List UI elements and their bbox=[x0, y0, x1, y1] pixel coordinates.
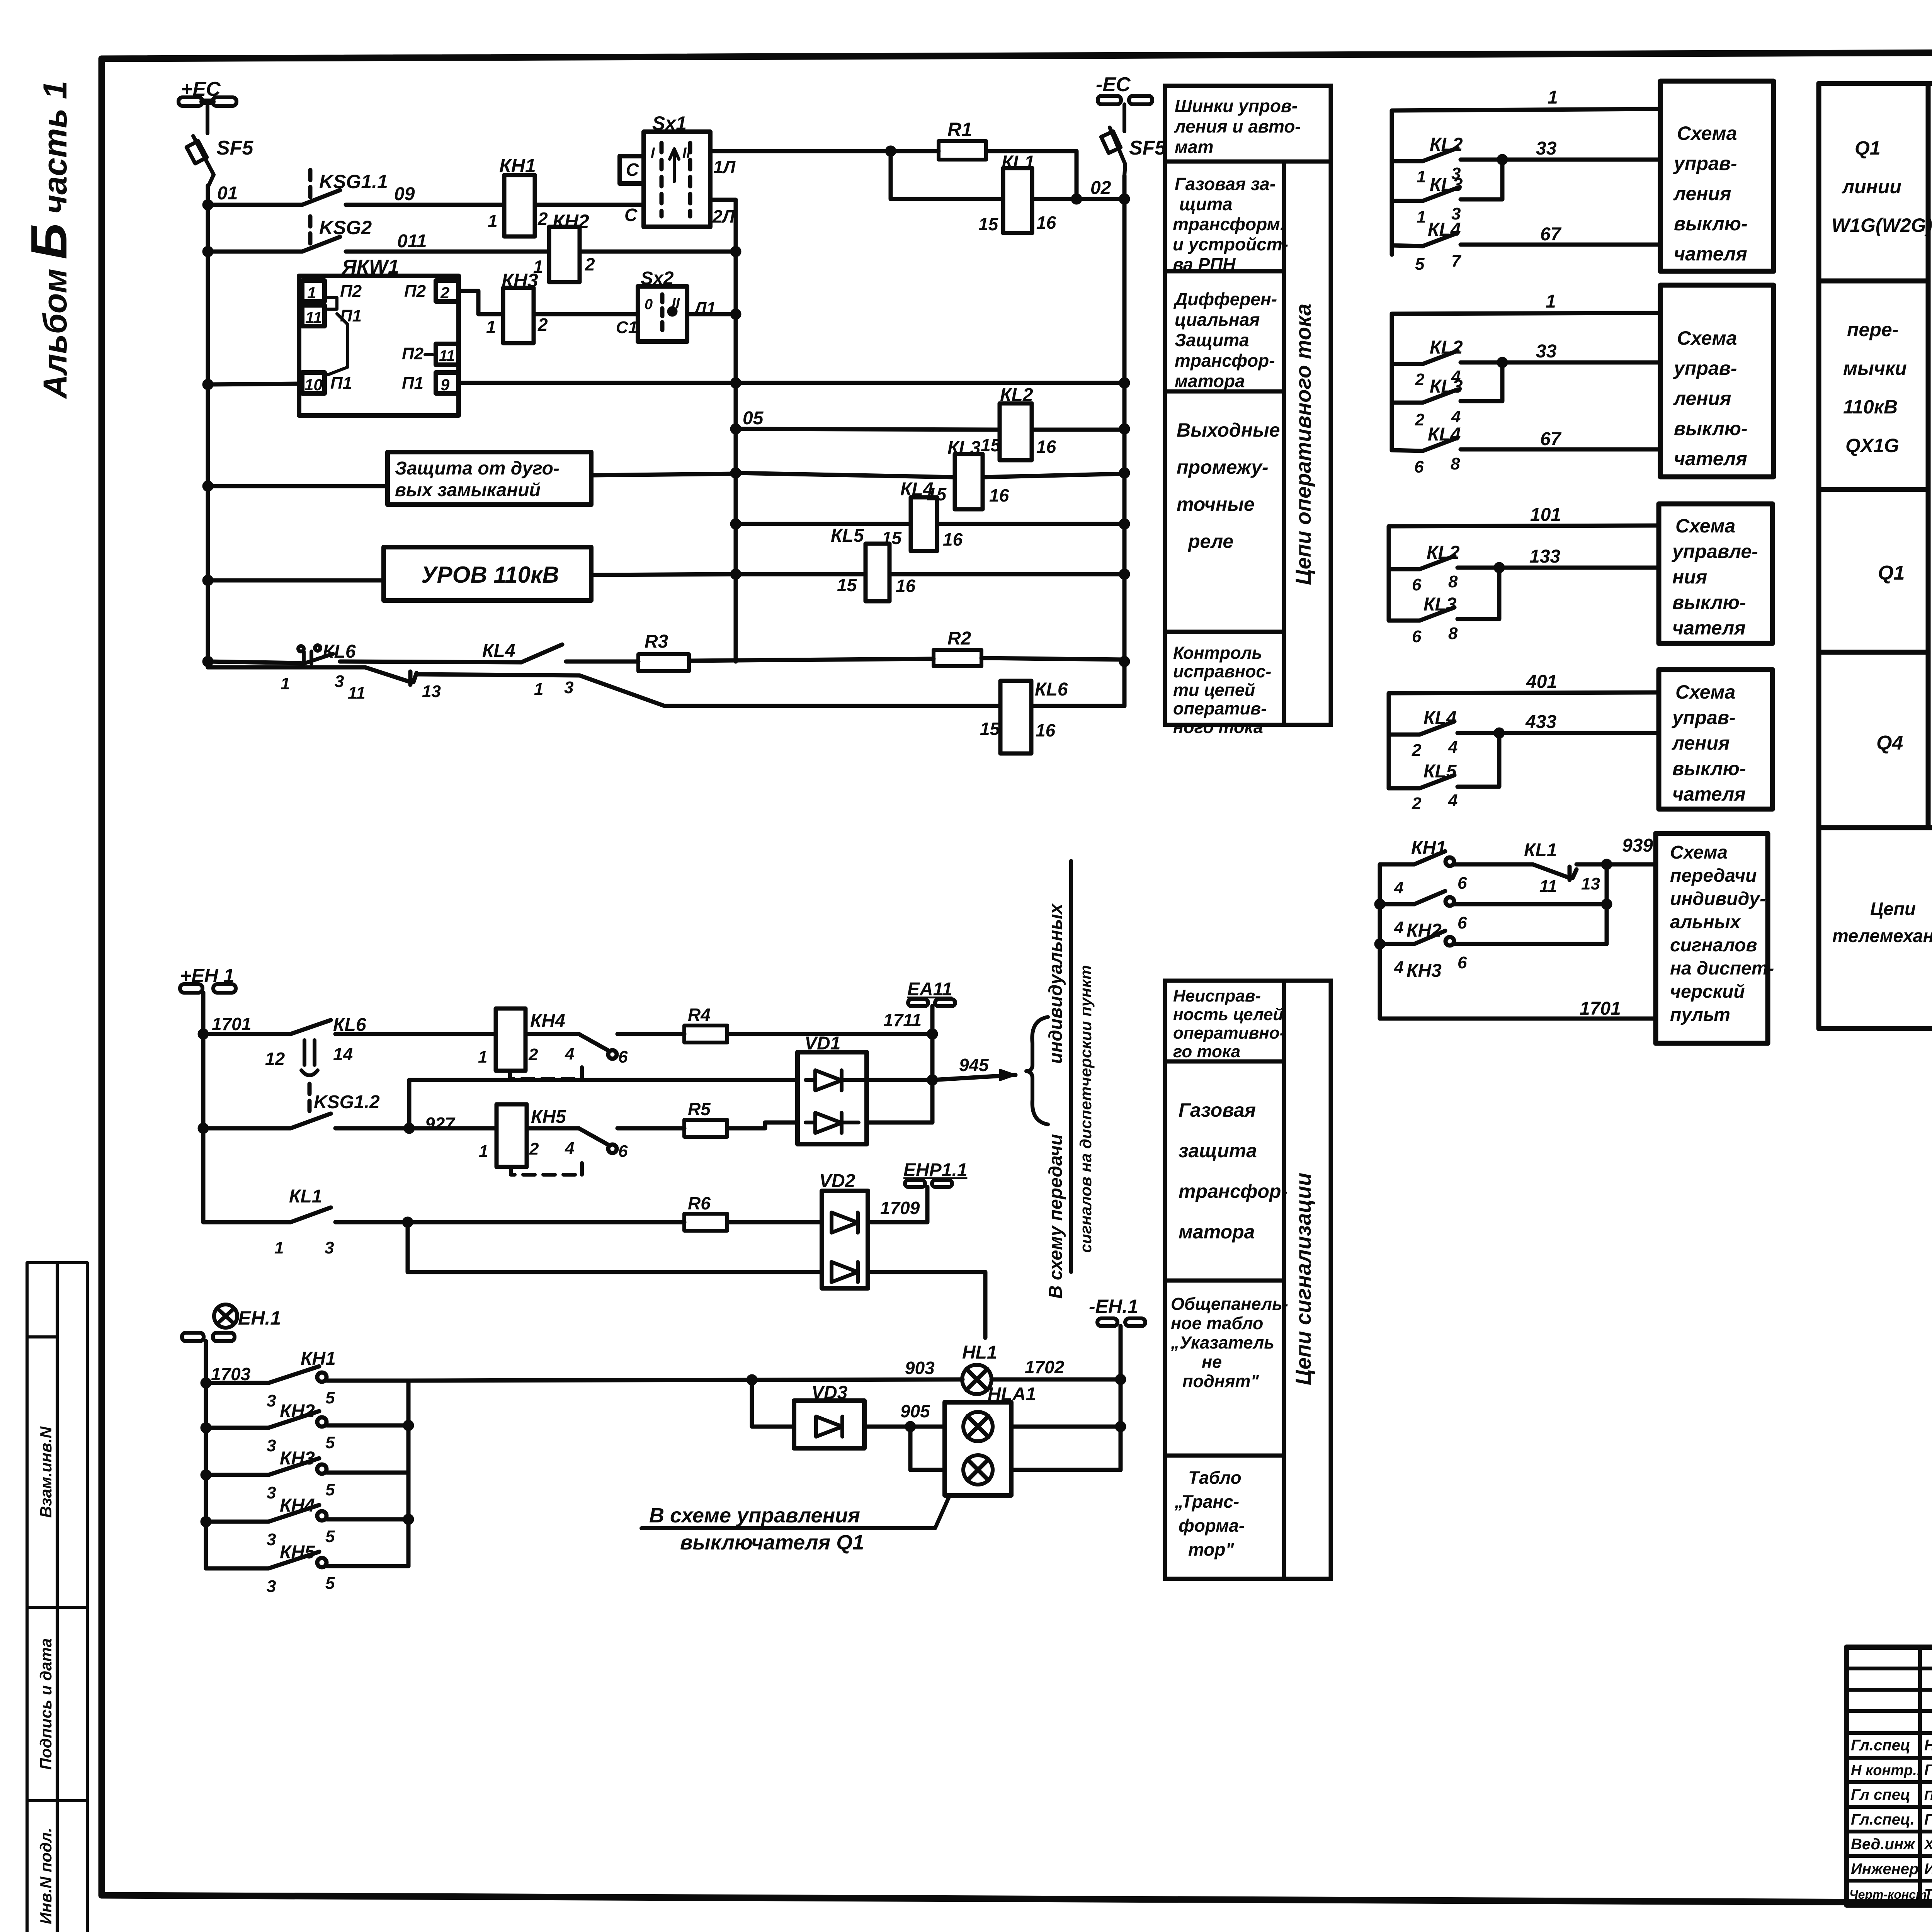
svg-text:6: 6 bbox=[618, 1142, 628, 1161]
relay KH5 bbox=[497, 1104, 527, 1167]
svg-text:КН4: КН4 bbox=[530, 1011, 565, 1031]
svg-text:КН3: КН3 bbox=[1406, 961, 1442, 981]
svg-text:Вед.инж: Вед.инж bbox=[1851, 1836, 1916, 1853]
svg-text:сигналов на диспетчерскии пунк: сигналов на диспетчерскии пункт bbox=[1077, 965, 1095, 1253]
wire 945 with arrow bbox=[932, 1075, 1015, 1080]
svg-text:KSG2: KSG2 bbox=[319, 217, 372, 238]
resistor R3 bbox=[638, 654, 689, 671]
svg-text:II: II bbox=[672, 296, 680, 312]
breaker SF5 bbox=[187, 136, 214, 185]
svg-text:5: 5 bbox=[325, 1480, 335, 1499]
svg-text:1701: 1701 bbox=[1580, 998, 1621, 1019]
svg-text:КН4: КН4 bbox=[280, 1495, 315, 1516]
lamp HL1 bbox=[962, 1365, 992, 1394]
title block frame bbox=[1847, 1647, 1932, 1905]
svg-text:Q4: Q4 bbox=[1876, 732, 1903, 754]
svg-text:R1: R1 bbox=[947, 119, 972, 140]
svg-text:Гл.спец: Гл.спец bbox=[1851, 1737, 1910, 1754]
svg-text:Никитин: Никитин bbox=[1924, 1737, 1932, 1754]
svg-text:33: 33 bbox=[1536, 138, 1557, 159]
svg-text:Sx1: Sx1 bbox=[652, 112, 687, 134]
lamp panel HLA1 bbox=[945, 1402, 1011, 1495]
contact KL4 (5-7) bbox=[1392, 245, 1423, 246]
svg-text:16: 16 bbox=[989, 485, 1009, 505]
contact KH5 (3-5) bbox=[206, 1566, 269, 1571]
svg-text:Инженер: Инженер bbox=[1851, 1861, 1918, 1878]
rail A vertical bbox=[734, 200, 738, 662]
svg-text:2: 2 bbox=[528, 1045, 538, 1064]
svg-text:13: 13 bbox=[1581, 874, 1600, 893]
svg-text:Черт-конст: Черт-конст bbox=[1849, 1888, 1927, 1901]
svg-text:Иванова: Иванова bbox=[1924, 1861, 1932, 1878]
right collector rail bbox=[406, 1381, 411, 1566]
svg-text:Взам.инв.N: Взам.инв.N bbox=[37, 1426, 55, 1518]
breaker SF5 (negative bus) bbox=[1101, 128, 1125, 176]
svg-text:3: 3 bbox=[325, 1238, 334, 1257]
svg-text:выключателя Q1: выключателя Q1 bbox=[680, 1531, 864, 1554]
svg-text:67: 67 bbox=[1540, 429, 1562, 449]
svg-text:16: 16 bbox=[1036, 720, 1056, 740]
svg-text:Sх2: Sх2 bbox=[641, 268, 674, 289]
contact KL2 (2-4) bbox=[1392, 362, 1423, 366]
wire bottom return row with contact KL4 11-13 bbox=[208, 665, 365, 670]
wire row 011 bbox=[208, 250, 302, 254]
svg-text:15: 15 bbox=[981, 435, 1001, 455]
contact KH2 (3-5) bbox=[206, 1426, 269, 1430]
svg-text:4: 4 bbox=[1448, 791, 1458, 810]
svg-text:15: 15 bbox=[837, 575, 857, 595]
svg-text:КL5: КL5 bbox=[831, 526, 864, 546]
svg-text:905: 905 bbox=[900, 1401, 930, 1421]
contact KL3 (6-8) bbox=[1389, 619, 1420, 623]
wire row 01-09 bbox=[208, 203, 302, 207]
resistor R1 bbox=[939, 141, 986, 160]
contact KH5 (4-6) bbox=[579, 1128, 608, 1145]
svg-text:16: 16 bbox=[1036, 213, 1056, 233]
brace for dispatcher signals bbox=[1026, 1017, 1048, 1124]
contact KH1 (4-6) bbox=[1380, 862, 1414, 867]
branch to VD3 bbox=[752, 1380, 794, 1427]
svg-text:133: 133 bbox=[1529, 546, 1560, 567]
contact KL4 (6-8) bbox=[1392, 450, 1423, 451]
left rail from +EH1 bbox=[201, 993, 206, 1222]
wire row 05 bbox=[736, 429, 1000, 430]
contact KSG1.1 bbox=[308, 170, 313, 198]
svg-text:КL6: КL6 bbox=[1035, 679, 1068, 700]
svg-text:939: 939 bbox=[1622, 835, 1653, 856]
svg-text:КН3: КН3 bbox=[502, 270, 538, 291]
group 5 rail bbox=[1378, 864, 1382, 1019]
branch to VD2 lower input bbox=[408, 1222, 822, 1272]
svg-text:2: 2 bbox=[440, 284, 449, 302]
diode block VD1 bbox=[798, 1052, 867, 1144]
svg-text:КН3: КН3 bbox=[280, 1448, 315, 1469]
svg-text:КL2: КL2 bbox=[1430, 134, 1463, 155]
svg-text:1709: 1709 bbox=[880, 1198, 920, 1218]
relay KH1 bbox=[504, 175, 535, 236]
svg-text:С1: С1 bbox=[616, 318, 638, 337]
svg-text:1711: 1711 bbox=[883, 1010, 922, 1030]
svg-text:1701: 1701 bbox=[212, 1014, 251, 1034]
svg-text:КL6: КL6 bbox=[323, 641, 356, 662]
svg-text:КL1: КL1 bbox=[289, 1186, 322, 1207]
riser to VD1 upper input bbox=[409, 1080, 798, 1128]
svg-text:УРОВ 110кВ: УРОВ 110кВ bbox=[421, 562, 559, 588]
svg-text:1: 1 bbox=[281, 674, 290, 693]
box Схема управления выключателя (2) bbox=[1660, 285, 1774, 477]
svg-text:6: 6 bbox=[1412, 575, 1422, 594]
wire row KSG1.2 bbox=[203, 1126, 291, 1131]
resistor R2 bbox=[934, 650, 981, 666]
bus EHP1.1 bbox=[905, 1180, 952, 1187]
svg-text:КН1: КН1 bbox=[499, 155, 536, 177]
svg-text:945: 945 bbox=[959, 1055, 989, 1075]
svg-text:14: 14 bbox=[333, 1044, 353, 1064]
svg-text:1703: 1703 bbox=[211, 1364, 251, 1384]
svg-text:П1: П1 bbox=[402, 374, 423, 393]
left margin stamp boxes bbox=[27, 1263, 87, 1932]
svg-text:5: 5 bbox=[325, 1433, 335, 1452]
relay KH3 bbox=[503, 288, 534, 343]
svg-text:4: 4 bbox=[1394, 878, 1403, 897]
column Q1/Q4 outer box bbox=[1819, 83, 1932, 1029]
svg-text:КН1: КН1 bbox=[301, 1349, 336, 1369]
svg-text:КL5: КL5 bbox=[1423, 761, 1457, 782]
svg-text:индивидуальных: индивидуальных bbox=[1046, 903, 1066, 1064]
svg-text:В схеме управления: В схеме управления bbox=[649, 1504, 860, 1527]
svg-text:16: 16 bbox=[943, 529, 963, 549]
box Защита от дуговых замыканий bbox=[388, 452, 591, 505]
svg-text:Тимофеева: Тимофеева bbox=[1924, 1886, 1932, 1902]
svg-text:-ЕС: -ЕС bbox=[1096, 73, 1131, 96]
svg-text:1: 1 bbox=[274, 1238, 284, 1257]
contact KL1 (11-13) bbox=[1533, 864, 1577, 880]
svg-text:Подпись и дата: Подпись и дата bbox=[37, 1638, 55, 1770]
svg-text:Цепи оперативного тока: Цепи оперативного тока bbox=[1291, 304, 1315, 585]
wire Sx1 2L to rail A bbox=[710, 198, 736, 202]
wire 1709 to EHP1.1 bbox=[868, 1187, 927, 1222]
wire to arc protection box bbox=[208, 484, 388, 488]
bus EA11 bbox=[908, 999, 955, 1006]
svg-text:КН5: КН5 bbox=[531, 1107, 566, 1127]
wire 903 row bbox=[408, 1379, 963, 1381]
resistor R5 bbox=[684, 1120, 727, 1137]
svg-text:ЕН.1: ЕН.1 bbox=[238, 1307, 281, 1329]
svg-text:1: 1 bbox=[307, 284, 316, 302]
branch to lower lamp bbox=[910, 1427, 945, 1470]
svg-text:5: 5 bbox=[325, 1574, 335, 1593]
callout rule (vertical) bbox=[1069, 861, 1073, 1272]
svg-text:05: 05 bbox=[743, 408, 764, 429]
contact KSG1.2 bbox=[308, 1084, 312, 1112]
svg-text:R4: R4 bbox=[688, 1005, 711, 1025]
svg-text:+ЕС: +ЕС bbox=[181, 78, 221, 100]
svg-text:КL4: КL4 bbox=[482, 641, 515, 661]
relay KL6 coil bbox=[1000, 681, 1031, 753]
wire from VD2 lower diode bbox=[868, 1272, 985, 1338]
svg-text:01: 01 bbox=[217, 183, 238, 204]
svg-text:КL6: КL6 bbox=[333, 1015, 366, 1035]
svg-text:5: 5 bbox=[1415, 255, 1425, 274]
svg-text:3: 3 bbox=[267, 1577, 276, 1596]
svg-text:В схему передачи: В схему передачи bbox=[1046, 1134, 1066, 1299]
svg-text:П2: П2 bbox=[340, 282, 362, 301]
svg-text:1: 1 bbox=[486, 317, 496, 337]
contact KSG2 bbox=[308, 216, 313, 243]
svg-text:927: 927 bbox=[425, 1114, 456, 1134]
svg-text:0: 0 bbox=[645, 296, 653, 313]
svg-text:SF5: SF5 bbox=[1129, 137, 1166, 159]
group 2: wire node 1 bbox=[1392, 313, 1660, 450]
svg-text:ЕНР1.1: ЕНР1.1 bbox=[903, 1160, 967, 1180]
svg-text:1: 1 bbox=[1417, 167, 1426, 186]
wire row 1701 bbox=[203, 1032, 291, 1036]
svg-text:2: 2 bbox=[537, 315, 548, 335]
switch Sx1 bbox=[620, 132, 710, 227]
svg-text:3: 3 bbox=[267, 1436, 276, 1455]
svg-text:4: 4 bbox=[565, 1044, 574, 1063]
svg-text:8: 8 bbox=[1448, 572, 1458, 591]
wire Sx1 1L row to R1 bbox=[710, 149, 939, 153]
svg-text:Цепи сигнализации: Цепи сигнализации bbox=[1291, 1173, 1315, 1385]
svg-text:КL2: КL2 bbox=[1427, 543, 1460, 563]
svg-text:6: 6 bbox=[1414, 457, 1424, 476]
svg-text:Горелик: Горелик bbox=[1924, 1811, 1932, 1828]
contact KH1 (3-5) bbox=[206, 1381, 269, 1385]
svg-text:2: 2 bbox=[529, 1139, 539, 1158]
svg-text:R3: R3 bbox=[645, 631, 668, 652]
contact KH4 (4-6) bbox=[579, 1034, 608, 1050]
svg-text:П1: П1 bbox=[330, 374, 352, 393]
svg-text:7: 7 bbox=[1451, 252, 1462, 270]
svg-text:R5: R5 bbox=[688, 1099, 711, 1119]
svg-text:КL2: КL2 bbox=[1430, 337, 1463, 358]
svg-text:11: 11 bbox=[1539, 877, 1557, 896]
group 4: wire node 401 bbox=[1389, 692, 1659, 788]
svg-text:2: 2 bbox=[1415, 370, 1425, 389]
svg-text:SF5: SF5 bbox=[216, 137, 253, 159]
svg-text:5: 5 bbox=[325, 1527, 335, 1546]
svg-text:903: 903 bbox=[905, 1358, 935, 1378]
svg-text:11: 11 bbox=[439, 347, 455, 364]
svg-text:10: 10 bbox=[304, 376, 323, 394]
svg-text:+ЕН 1: +ЕН 1 bbox=[180, 965, 234, 986]
group 1: wire node 1 bbox=[1392, 109, 1660, 255]
svg-text:13: 13 bbox=[422, 682, 441, 701]
svg-text:15: 15 bbox=[882, 528, 902, 548]
bus -EH.1 bbox=[1097, 1318, 1145, 1326]
contact KL3 (2-4) bbox=[1392, 401, 1423, 405]
svg-text:11: 11 bbox=[305, 308, 322, 327]
svg-text:КL4: КL4 bbox=[1428, 219, 1461, 240]
wire 1701 to box bbox=[1380, 1017, 1656, 1021]
resistor R4 bbox=[684, 1026, 727, 1043]
svg-text:1: 1 bbox=[1417, 207, 1426, 226]
svg-text:401: 401 bbox=[1526, 672, 1557, 692]
box УРОВ 110кВ bbox=[384, 547, 591, 600]
svg-text:VD1: VD1 bbox=[804, 1033, 840, 1054]
contact KL5 (2-4) bbox=[1389, 786, 1420, 791]
svg-text:П2: П2 bbox=[404, 282, 426, 301]
bus -EC bbox=[1098, 96, 1152, 131]
svg-text:КН1: КН1 bbox=[1411, 838, 1446, 858]
lower annotation column (signal circuits) bbox=[1165, 981, 1331, 1579]
svg-text:1: 1 bbox=[1546, 291, 1556, 312]
box Схема управления выключателя (3) bbox=[1659, 504, 1772, 643]
svg-text:R2: R2 bbox=[947, 628, 971, 649]
svg-text:VD2: VD2 bbox=[819, 1171, 855, 1191]
wire to УРОВ box bbox=[208, 578, 384, 583]
contact KL2 (1-3) bbox=[1392, 159, 1423, 163]
svg-text:R6: R6 bbox=[688, 1193, 711, 1213]
svg-text:П1: П1 bbox=[340, 306, 362, 325]
svg-text:Q1: Q1 bbox=[1878, 562, 1905, 584]
svg-text:2: 2 bbox=[1412, 741, 1422, 760]
svg-text:VD3: VD3 bbox=[811, 1383, 848, 1403]
svg-text:8: 8 bbox=[1448, 624, 1458, 643]
left vertical rail bbox=[206, 185, 210, 667]
svg-text:HLА1: HLА1 bbox=[988, 1384, 1036, 1405]
svg-text:9: 9 bbox=[440, 376, 450, 394]
bus +EC bbox=[179, 97, 236, 133]
svg-text:Н контр..: Н контр.. bbox=[1851, 1762, 1921, 1779]
svg-text:2: 2 bbox=[1415, 410, 1425, 429]
contact KH4 (3-5) bbox=[206, 1520, 269, 1524]
diode block VD3 bbox=[794, 1401, 864, 1448]
wire 927 row bbox=[409, 1126, 497, 1131]
svg-text:1: 1 bbox=[1548, 87, 1558, 108]
svg-text:02: 02 bbox=[1090, 178, 1111, 198]
contact KH3 (4-6) bbox=[1380, 942, 1414, 946]
wire KL6 contact row bbox=[208, 662, 301, 663]
relay KH4 bbox=[496, 1009, 526, 1071]
right annotation column (operative current circuits) bbox=[1165, 86, 1331, 725]
svg-text:4: 4 bbox=[1394, 918, 1403, 937]
svg-text:Инв.N подл.: Инв.N подл. bbox=[37, 1828, 55, 1924]
svg-text:16: 16 bbox=[1036, 437, 1056, 457]
svg-text:Гл спец: Гл спец bbox=[1851, 1786, 1910, 1803]
svg-text:6: 6 bbox=[1412, 627, 1422, 646]
relay KL2 coil bbox=[1000, 403, 1032, 460]
box Схема управления выключателя (4) bbox=[1659, 670, 1772, 809]
relay KL3 coil bbox=[736, 473, 955, 477]
switch Sx2 bbox=[638, 286, 687, 342]
svg-text:4: 4 bbox=[1448, 738, 1458, 757]
contact KH3 (3-5) bbox=[206, 1473, 269, 1477]
svg-text:1: 1 bbox=[488, 211, 498, 231]
svg-text:КН2: КН2 bbox=[280, 1401, 315, 1422]
svg-text:6: 6 bbox=[618, 1048, 628, 1066]
relay KL1 bbox=[1003, 168, 1032, 233]
relay KL4 coil bbox=[736, 522, 911, 526]
rail C vertical bbox=[1122, 176, 1127, 706]
svg-text:433: 433 bbox=[1525, 712, 1556, 732]
svg-text:1Л: 1Л bbox=[713, 157, 736, 177]
svg-text:2: 2 bbox=[537, 209, 548, 229]
svg-text:КL4: КL4 bbox=[1423, 708, 1457, 728]
svg-text:КL4: КL4 bbox=[900, 479, 934, 500]
svg-text:3: 3 bbox=[267, 1530, 276, 1549]
relay KL5 coil bbox=[736, 572, 866, 577]
group 3: wire node 101 bbox=[1389, 526, 1659, 621]
svg-text:HL1: HL1 bbox=[962, 1342, 997, 1363]
svg-text:1702: 1702 bbox=[1025, 1357, 1065, 1377]
svg-text:33: 33 bbox=[1536, 341, 1557, 362]
diode block VD2 bbox=[822, 1191, 868, 1288]
svg-text:4: 4 bbox=[565, 1139, 574, 1158]
svg-text:2: 2 bbox=[1412, 794, 1422, 813]
svg-text:6: 6 bbox=[1458, 913, 1467, 932]
svg-text:КН5: КН5 bbox=[280, 1542, 315, 1563]
svg-text:8: 8 bbox=[1451, 454, 1460, 473]
box Схема передачи индивидуальных сигналов bbox=[1656, 833, 1768, 1043]
wire AKW1 pin2 to KH3 bbox=[458, 291, 503, 314]
svg-text:1: 1 bbox=[479, 1142, 488, 1161]
svg-text:I: I bbox=[651, 145, 655, 161]
svg-text:3: 3 bbox=[335, 672, 344, 691]
svg-text:5: 5 bbox=[325, 1388, 335, 1407]
svg-text:15: 15 bbox=[980, 719, 1000, 739]
svg-text:КL3: КL3 bbox=[947, 438, 981, 458]
svg-text:КL4: КL4 bbox=[1428, 424, 1461, 445]
svg-text:67: 67 bbox=[1540, 224, 1562, 245]
contact KL6 (latched) bbox=[298, 645, 333, 664]
svg-text:КL3: КL3 bbox=[1430, 376, 1463, 397]
svg-text:11: 11 bbox=[348, 684, 366, 702]
svg-text:101: 101 bbox=[1530, 505, 1561, 525]
svg-text:П2: П2 bbox=[402, 344, 424, 363]
resistor R6 bbox=[684, 1214, 727, 1231]
svg-text:4: 4 bbox=[1394, 958, 1403, 977]
svg-text:Пришковский: Пришковский bbox=[1924, 1788, 1932, 1803]
svg-text:Л1: Л1 bbox=[694, 299, 716, 318]
svg-text:3: 3 bbox=[267, 1483, 276, 1502]
svg-text:KSG1.1: KSG1.1 bbox=[319, 171, 388, 192]
relay KH2 bbox=[549, 227, 580, 282]
node 01 junction bbox=[204, 201, 211, 208]
wire row KL1 bbox=[203, 1220, 291, 1225]
svg-text:КН2: КН2 bbox=[553, 211, 589, 232]
svg-text:КL2: КL2 bbox=[1000, 385, 1033, 405]
svg-text:1: 1 bbox=[478, 1048, 487, 1066]
relay AKW1 box bbox=[299, 276, 459, 415]
svg-text:II: II bbox=[682, 145, 691, 161]
svg-text:КН2: КН2 bbox=[1406, 920, 1442, 941]
branch to relay KL1 bbox=[891, 151, 1003, 199]
bus +EH1 bbox=[180, 984, 236, 993]
svg-text:3: 3 bbox=[564, 678, 573, 697]
svg-text:12: 12 bbox=[265, 1049, 285, 1069]
box Схема управления выключателя (1) bbox=[1660, 81, 1774, 271]
svg-text:-ЕН.1: -ЕН.1 bbox=[1089, 1296, 1138, 1317]
contact KL1 (1-3) bbox=[291, 1207, 331, 1222]
svg-text:КL1: КL1 bbox=[1002, 152, 1035, 173]
svg-text:4: 4 bbox=[1451, 407, 1461, 426]
svg-text:6: 6 bbox=[1458, 874, 1467, 893]
svg-text:Гл.спец.: Гл.спец. bbox=[1851, 1811, 1915, 1828]
svg-text:КL3: КL3 bbox=[1423, 594, 1457, 615]
svg-text:09: 09 bbox=[394, 184, 415, 204]
svg-text:КL1: КL1 bbox=[1524, 840, 1557, 861]
contact KH2 (4-6) bbox=[1380, 902, 1414, 906]
contact KL6 (12-14 time) bbox=[291, 1020, 331, 1034]
svg-text:2: 2 bbox=[585, 254, 595, 274]
svg-text:KSG1.2: KSG1.2 bbox=[314, 1092, 380, 1112]
svg-text:ЯКW1: ЯКW1 bbox=[341, 256, 399, 278]
svg-text:3: 3 bbox=[267, 1391, 276, 1410]
callout underline and leader bbox=[641, 1497, 949, 1528]
bus ⊕EH.1 bbox=[182, 1304, 237, 1341]
